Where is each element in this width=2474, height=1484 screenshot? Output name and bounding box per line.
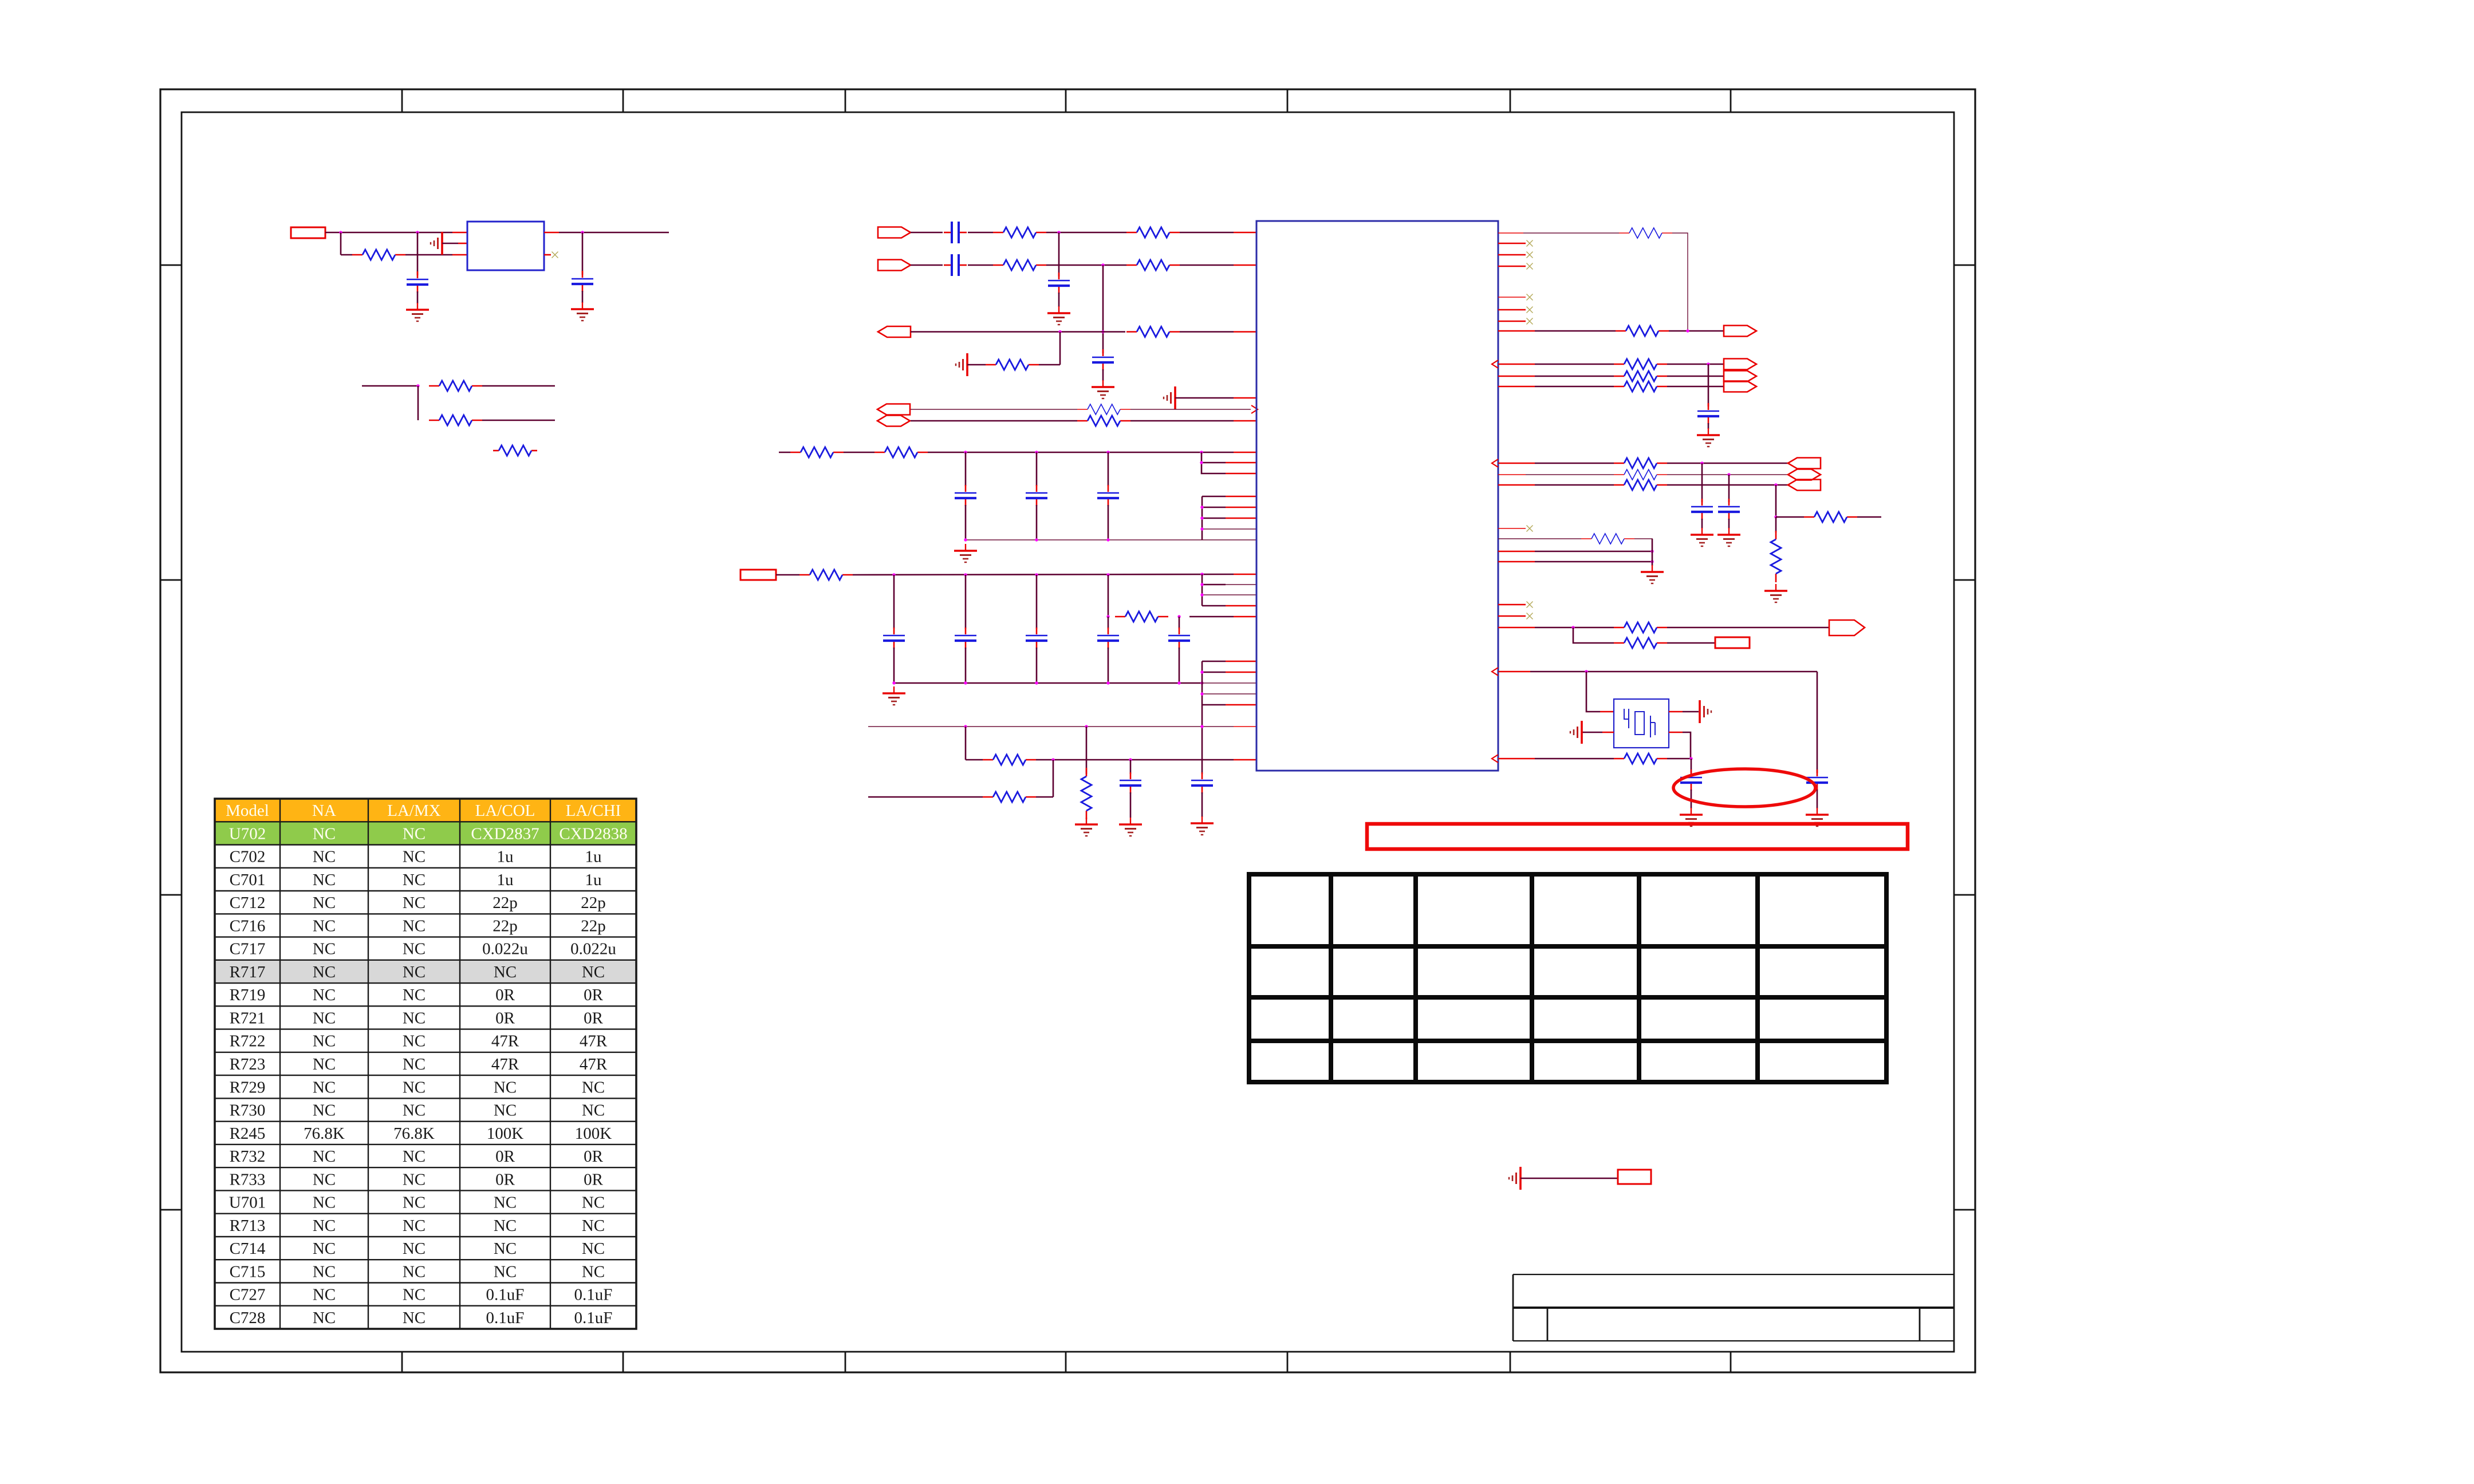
svg-text:NC: NC	[582, 1102, 605, 1120]
svg-text:C727: C727	[230, 1286, 266, 1304]
no-connect pin 1056	[1498, 604, 1526, 606]
ground	[1775, 584, 1776, 591]
wire rail2 start	[776, 574, 799, 576]
border tick bottom	[1510, 1352, 1511, 1372]
svg-text:NC: NC	[403, 940, 426, 958]
svg-text:NC: NC	[494, 1240, 517, 1258]
resistor R721	[1077, 420, 1088, 422]
svg-text:NC: NC	[403, 1262, 426, 1281]
resistor R717 vertical	[1086, 768, 1088, 776]
junction rail1-c2	[1035, 451, 1038, 453]
wire R742 to flag	[1669, 330, 1724, 332]
connector flag SD1	[1788, 458, 1821, 469]
wire XTAL2 row	[1535, 758, 1614, 760]
wire to R715	[1039, 364, 1060, 366]
svg-text:R717: R717	[230, 963, 266, 981]
svg-text:NC: NC	[313, 1286, 336, 1304]
svg-text:R713: R713	[230, 1217, 266, 1235]
wire rail1 cap drop 1	[965, 452, 967, 486]
wire 636 to R722r	[1535, 364, 1614, 365]
svg-text:R723: R723	[230, 1055, 266, 1073]
title block divider thick	[1513, 1307, 1954, 1309]
svg-text:0.022u: 0.022u	[570, 940, 616, 958]
long vertical to decoupling cap	[1201, 705, 1203, 774]
wire R761 to flag	[1667, 463, 1788, 464]
wire C721 to bus	[965, 505, 967, 540]
svg-text:NC: NC	[313, 824, 336, 843]
wire rail2 drop4	[1108, 575, 1109, 617]
resistor R732	[874, 452, 885, 453]
resistor R765 vertical	[1775, 531, 1777, 539]
pin 867	[1202, 496, 1226, 498]
svg-text:NC: NC	[403, 871, 426, 889]
wire 847 drop	[1775, 485, 1777, 517]
resistor R763	[1614, 484, 1624, 486]
svg-text:NC: NC	[494, 1194, 517, 1212]
junction 886	[1200, 506, 1203, 508]
pin stub row 675	[1498, 386, 1535, 388]
junction 847	[1774, 483, 1777, 486]
wire sideways ground to R715	[967, 364, 986, 366]
svg-text:NC: NC	[403, 1078, 426, 1096]
pin 886	[1202, 507, 1226, 508]
svg-text:NC: NC	[313, 871, 336, 889]
no-connect pin 519 thin	[1498, 297, 1526, 298]
capacitor C716	[1102, 349, 1104, 356]
svg-text:47R: 47R	[491, 1055, 519, 1073]
resistor R715	[986, 364, 996, 366]
junction IN1 node	[1057, 231, 1060, 234]
border tick top	[845, 89, 846, 112]
wire rail1 cap drop 2	[1036, 452, 1038, 486]
no-connect pin 465	[1498, 266, 1526, 267]
wire row C to corner	[1036, 796, 1053, 798]
wire gnd pin to regulator	[442, 243, 458, 244]
wire rail2 drop2	[965, 575, 967, 629]
wire C723 to bus	[1108, 505, 1109, 540]
border tick bottom	[1065, 1352, 1067, 1372]
wire to net label	[1520, 1178, 1618, 1179]
svg-text:C717: C717	[230, 940, 266, 958]
wire filter to U702 pin	[1189, 616, 1234, 618]
wire 657 to R752	[1535, 376, 1614, 377]
no-connect pin 445	[1498, 254, 1526, 256]
resistor R772	[1614, 642, 1624, 644]
connector flag AGC	[878, 326, 911, 337]
junction 924	[1200, 527, 1203, 530]
ground	[1086, 818, 1087, 824]
svg-text:NC: NC	[313, 1309, 336, 1327]
wire C731 to ground	[1708, 423, 1709, 429]
svg-text:NC: NC	[313, 1240, 336, 1258]
svg-text:NC: NC	[313, 917, 336, 935]
svg-text:0.1uF: 0.1uF	[486, 1286, 525, 1304]
svg-text:C716: C716	[230, 917, 266, 935]
pin stub row 1173	[1498, 671, 1530, 673]
wire AGC drop	[1059, 332, 1061, 365]
junction 578	[1686, 329, 1689, 332]
capacitor C725	[965, 627, 967, 634]
svg-text:0R: 0R	[584, 1147, 604, 1166]
connector flag IN1	[878, 227, 911, 238]
red rectangle annotation	[1367, 824, 1908, 849]
svg-text:1u: 1u	[585, 848, 602, 866]
capacitor C702 series	[944, 265, 951, 266]
capacitor C723	[1108, 485, 1109, 492]
wire 1096 drop	[1573, 627, 1614, 643]
wire node B vertical	[417, 232, 419, 275]
svg-text:NC: NC	[313, 940, 336, 958]
title block lower line	[1513, 1340, 1954, 1341]
junction 808	[1200, 461, 1203, 464]
wire R741 corner down	[1672, 233, 1688, 331]
resistor R773	[1614, 758, 1624, 760]
ground bus 2	[894, 682, 1202, 684]
resistor R741	[1619, 232, 1629, 234]
wire R753 to flag	[1667, 386, 1724, 388]
wire XTAL2 drop	[1691, 759, 1692, 773]
svg-text:0R: 0R	[495, 1147, 515, 1166]
svg-text:R730: R730	[230, 1102, 266, 1120]
wire C733 to ground	[1728, 519, 1730, 528]
capacitor C602	[582, 271, 584, 278]
wire rail2 drop3	[1036, 575, 1038, 629]
resistor R719	[1077, 409, 1088, 410]
junction rail1-c3	[1106, 451, 1109, 453]
component variant table	[215, 799, 636, 1329]
svg-text:NC: NC	[403, 963, 426, 981]
junction AGC node 2	[1058, 330, 1061, 333]
pin 1212	[1202, 693, 1256, 694]
junction XTAL1	[1585, 670, 1587, 673]
svg-text:NC: NC	[403, 848, 426, 866]
wire C726 to bus2	[1036, 648, 1038, 683]
capacitor C727	[1108, 627, 1109, 634]
capacitor C726	[1036, 627, 1038, 634]
junction node C	[581, 231, 584, 234]
border tick left	[160, 1209, 182, 1211]
ground	[1201, 816, 1203, 823]
svg-text:NC: NC	[313, 848, 336, 866]
wire C717 to ground	[1817, 790, 1818, 808]
svg-text:NC: NC	[494, 1217, 517, 1235]
junction 636	[1707, 362, 1709, 365]
junction rail2-5	[1200, 573, 1203, 575]
svg-text:NC: NC	[582, 963, 605, 981]
crystal bottom-right pin	[1669, 732, 1683, 733]
svg-text:0R: 0R	[584, 1009, 604, 1028]
pin assignment table grid	[1249, 874, 1886, 1082]
resistor R702	[993, 265, 1003, 266]
wire R712 to U702 pin	[1180, 265, 1234, 266]
junction bus2-4	[1106, 681, 1109, 684]
junction rowA-2	[1085, 725, 1088, 728]
wire SCL thin	[911, 409, 1077, 410]
svg-text:0R: 0R	[495, 1009, 515, 1028]
sheet outer border frame	[160, 89, 1975, 1372]
junction bus2-1	[892, 681, 895, 684]
title block top line	[1513, 1274, 1954, 1275]
capacitor C731	[1708, 403, 1709, 410]
svg-text:R729: R729	[230, 1078, 266, 1096]
border tick right	[1954, 265, 1975, 266]
wire to ground	[1652, 539, 1653, 566]
no-connect pin 561	[1498, 321, 1526, 322]
pin arrow out 809	[1492, 459, 1498, 467]
wire 963	[1535, 551, 1652, 552]
resistor R742	[1616, 330, 1626, 332]
title block cell divider 1	[1547, 1308, 1549, 1341]
resistor R712	[1126, 265, 1137, 266]
svg-text:C701: C701	[230, 871, 266, 889]
wire rowA drop to rowB	[965, 727, 967, 760]
junction rowA-1	[964, 725, 967, 728]
svg-text:R732: R732	[230, 1147, 266, 1166]
wire R711 to U702 pin	[1180, 232, 1234, 234]
ground	[1058, 306, 1059, 313]
junction AGC node	[1101, 330, 1104, 333]
net label box CLK	[1715, 637, 1750, 648]
svg-text:NC: NC	[582, 1262, 605, 1281]
resistor R771	[1614, 627, 1624, 629]
svg-text:NC: NC	[494, 963, 517, 981]
pin 1193	[1202, 682, 1256, 684]
wire R701 to R711	[1046, 232, 1126, 234]
svg-text:NC: NC	[313, 1170, 336, 1189]
net label box bottom	[1618, 1170, 1651, 1184]
junction 1212	[1200, 692, 1203, 695]
wire rowA drop to R717	[1086, 727, 1088, 774]
svg-text:LA/MX: LA/MX	[387, 802, 441, 820]
resistor R752	[1614, 376, 1624, 377]
wire row B left	[966, 759, 983, 761]
wire 636 drop	[1708, 364, 1709, 406]
ground	[1817, 808, 1818, 815]
wire rail2 to U702	[853, 574, 1234, 575]
junction bus2-3	[1035, 681, 1038, 684]
border tick top	[1510, 89, 1511, 112]
svg-text:NC: NC	[313, 1078, 336, 1096]
junction rail2-2	[964, 573, 967, 576]
ground	[1130, 818, 1131, 824]
wire rail1 cap drop 3	[1108, 452, 1109, 486]
junction rail2-1	[892, 573, 895, 576]
svg-text:76.8K: 76.8K	[393, 1124, 435, 1143]
wire node D drop	[417, 386, 419, 420]
wire R751 to flag	[1667, 364, 1724, 365]
svg-text:NC: NC	[313, 894, 336, 912]
svg-text:NC: NC	[403, 1032, 426, 1051]
ground bus 1	[966, 539, 1202, 540]
wire C714 to ground	[1201, 792, 1203, 817]
svg-text:NC: NC	[582, 1217, 605, 1235]
pin bracket rail1	[1201, 452, 1226, 473]
junction rail2-3	[1035, 573, 1038, 576]
wire IN1 node drop	[1058, 232, 1060, 277]
wire 407 to R741	[1523, 232, 1619, 234]
wire SDA	[911, 420, 1077, 422]
junction rowB-1	[1051, 758, 1054, 761]
no-connect stub pin	[544, 254, 551, 256]
svg-text:NC: NC	[403, 1055, 426, 1073]
svg-text:0R: 0R	[495, 986, 515, 1004]
capacitor C712	[1058, 273, 1060, 279]
svg-text:NC: NC	[313, 1009, 336, 1028]
wire C732 to ground	[1701, 519, 1703, 528]
wire 829 drop	[1728, 475, 1730, 502]
no-connect pin 923 thin	[1498, 528, 1526, 529]
svg-text:U702: U702	[229, 824, 266, 843]
pin arrow into U702	[1251, 405, 1258, 413]
wire bias row	[362, 385, 418, 387]
wire VIN to regulator U601 input	[325, 232, 452, 234]
junction bus2-6	[1200, 681, 1203, 684]
resistor R602	[429, 385, 439, 387]
wire C701 to R701	[968, 232, 993, 234]
wire IN1 to C701	[911, 232, 943, 234]
wire XTAL1 to crystal	[1586, 672, 1600, 712]
junction filter node L	[1106, 615, 1109, 618]
wire IN2 to C702	[911, 265, 943, 266]
junction bus1-1	[964, 538, 967, 541]
svg-text:NC: NC	[313, 963, 336, 981]
border tick top	[401, 89, 403, 112]
wire C725 to bus2	[965, 648, 967, 683]
resistor R711	[1126, 232, 1137, 234]
junction filter node R	[1177, 615, 1180, 618]
svg-text:C712: C712	[230, 894, 266, 912]
border tick bottom	[845, 1352, 846, 1372]
pin 1231	[1202, 704, 1226, 706]
junction rail1-bracket	[1200, 451, 1203, 453]
svg-text:NC: NC	[403, 1009, 426, 1028]
wire 981	[1535, 561, 1652, 563]
wire C722 to bus	[1036, 505, 1038, 540]
svg-text:22p: 22p	[581, 917, 606, 935]
svg-text:NC: NC	[582, 1194, 605, 1212]
svg-text:NC: NC	[313, 1055, 336, 1073]
svg-text:100K: 100K	[487, 1124, 524, 1143]
wire R752 to flag	[1667, 376, 1724, 377]
junction rowA-3	[1200, 725, 1203, 728]
wire rail1 to U702	[928, 452, 1234, 453]
pin arrow out 1173	[1492, 668, 1498, 676]
resistor R753	[1614, 386, 1624, 388]
connector flag TS1	[1724, 359, 1756, 370]
svg-text:CXD2837: CXD2837	[471, 824, 539, 843]
sideways ground bottom	[1519, 1167, 1522, 1190]
capacitor C733	[1728, 499, 1730, 506]
no-connect pin 541	[1498, 309, 1526, 311]
wire R762 to flag	[1667, 474, 1788, 475]
capacitor C701 series	[944, 232, 951, 234]
wire gnd to U702 pin	[1175, 397, 1234, 399]
wire C715 to ground	[1130, 792, 1132, 818]
capacitor C714	[1201, 772, 1203, 779]
junction 903	[1774, 515, 1777, 518]
svg-text:NA: NA	[312, 802, 336, 820]
capacitor C732	[1701, 499, 1703, 506]
wire AGC to U702	[911, 331, 1125, 333]
svg-text:C728: C728	[230, 1309, 266, 1327]
svg-text:1u: 1u	[497, 871, 514, 889]
junction bus1-2	[1035, 538, 1038, 541]
junction rowB-2	[1129, 758, 1132, 761]
wire between R731 R732	[844, 452, 874, 453]
wire row A	[868, 726, 1234, 727]
svg-text:1u: 1u	[497, 848, 514, 866]
junction XTAL2	[1689, 757, 1692, 760]
svg-text:NC: NC	[403, 1194, 426, 1212]
svg-text:R245: R245	[230, 1124, 266, 1143]
pin stub row 963	[1498, 551, 1535, 552]
wire R763 to flag	[1667, 484, 1788, 486]
svg-text:R721: R721	[230, 1009, 266, 1028]
crystal X701 body	[1614, 699, 1669, 748]
resistor R733	[799, 574, 810, 576]
wire 847 to R763	[1535, 484, 1614, 486]
connector flag TS3	[1724, 381, 1756, 392]
junction 829	[1727, 473, 1730, 476]
pin stub row 809	[1498, 463, 1535, 464]
ground	[417, 303, 418, 310]
pin stub row 829 thin	[1498, 474, 1526, 475]
resistor R603	[429, 420, 439, 421]
wire regulator output	[544, 232, 559, 234]
connector flag OUT1	[1724, 326, 1756, 337]
border tick bottom	[623, 1352, 624, 1372]
wire 829 to R762	[1526, 474, 1614, 475]
pin stub row 847	[1498, 484, 1535, 486]
resistor R731	[790, 452, 801, 453]
crystal bottom-left pin	[1602, 732, 1614, 733]
border tick top	[1730, 89, 1732, 112]
ground	[1102, 380, 1104, 387]
wire 578 to R742	[1535, 330, 1616, 332]
wire node C vertical	[582, 232, 584, 275]
red ellipse annotation	[1673, 769, 1815, 807]
svg-text:NC: NC	[313, 1194, 336, 1212]
wire junction to R765	[1775, 517, 1777, 532]
wire 809 drop	[1701, 463, 1703, 502]
junction 905	[1200, 516, 1203, 519]
junction rail1-c1	[964, 451, 967, 453]
sideways ground at GND pin row	[1174, 386, 1176, 409]
connector flag I2C SDA	[877, 416, 910, 427]
pin 1155	[1202, 661, 1226, 662]
wire 675 to R753	[1535, 386, 1614, 388]
wire row B right	[1036, 759, 1234, 761]
junction 809	[1700, 461, 1703, 464]
svg-text:LA/COL: LA/COL	[475, 802, 535, 820]
title block cell divider 2	[1919, 1308, 1921, 1341]
wire row C	[868, 796, 983, 798]
wire C716 to ground	[1102, 369, 1104, 381]
wire row 941 thin	[1498, 538, 1581, 539]
svg-text:NC: NC	[403, 986, 426, 1004]
regulator U601	[467, 222, 544, 270]
resistor R722	[983, 759, 993, 761]
ground at bus2	[893, 686, 895, 693]
svg-text:0.022u: 0.022u	[482, 940, 528, 958]
border tick top	[1065, 89, 1067, 112]
wire IN2 node drop	[1102, 265, 1104, 353]
junction bus2-2	[964, 681, 967, 684]
bracket AVDD vertical	[1201, 574, 1203, 606]
no-connect pin 1076	[1498, 615, 1526, 617]
crystal right pin to sideways ground	[1669, 711, 1683, 713]
wire cap2 to ground	[582, 291, 584, 303]
